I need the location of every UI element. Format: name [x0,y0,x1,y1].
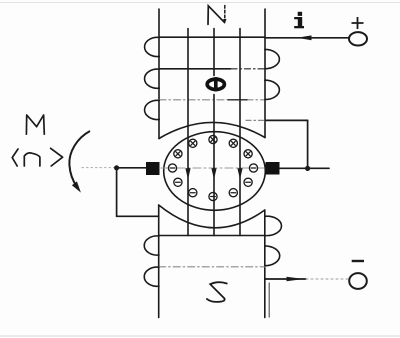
N coil left turn 1 [145,37,160,56]
conductor 60deg [229,139,237,147]
N coil right turn 1 [265,49,280,68]
S pole right edge [264,210,266,318]
conductor 270deg [209,192,217,200]
flux arrowhead right [237,168,242,179]
rotation arrowhead [72,181,81,192]
junction dot left [114,165,119,170]
N pole left edge [158,9,160,139]
flux line left [187,29,189,236]
flux label phi [207,79,224,89]
conductor 180deg [168,164,176,172]
S pole face arc [159,205,265,228]
flux line across centre conductors [213,135,215,201]
conductor 150deg [174,150,182,158]
conductor 90deg [209,135,217,143]
wire N pole to right vertical [266,119,308,121]
N pole face arc [159,122,265,138]
S coil left turn 1 [144,236,159,255]
wire left brush to junction [117,167,146,169]
brush right [266,162,280,175]
scan artifact bottom line [0,335,400,337]
S field winding line 1 [159,235,265,237]
flux arrowhead left [185,168,190,179]
brush axis centerline [161,167,264,169]
rotation arrow arc [69,131,90,187]
current arrow on plus wire [297,35,312,40]
cross symbols (current into page) [246,152,250,156]
dash symbols (current out of page) [251,167,256,169]
conductor 210deg [174,178,182,186]
scan artifact top line [0,2,400,4]
wire plus terminal [265,37,349,39]
N coil left turn 2 [145,69,160,88]
S coil left turn 2 [144,267,159,286]
plus terminal circle [349,32,367,45]
N coil right turn 2 [265,80,280,99]
label M [26,115,44,134]
minus sign [352,260,364,262]
N field winding line 3 (hidden) [159,99,265,101]
armature conductors: top half = current in (x), bottom = out (dash) [168,135,257,200]
S coil right turn 2 [265,246,280,266]
plus sign [352,17,364,29]
minus terminal circle [349,273,367,289]
N coil left turn 3 [145,100,160,119]
conductor 0deg [249,164,257,172]
N pole right edge [264,9,266,138]
wire right vertical down [307,120,309,168]
conductor 330deg [244,178,252,186]
N field winding line 2 [159,68,231,70]
wire minus terminal faint [306,278,349,280]
hidden winding lead inside N pole [246,119,265,121]
flux line center (gap at phi) [213,29,215,236]
wire minus terminal solid [265,278,306,280]
conductor 240deg [189,189,197,197]
S coil right turn 1 [265,216,282,235]
conductor 120deg [189,139,197,147]
S pole left edge [158,205,160,318]
conductor 30deg [244,150,252,158]
brush left [146,162,160,175]
flux arrowhead center [211,168,216,179]
label i [294,12,304,29]
label N [208,6,225,25]
wire right brush line [280,167,330,169]
conductor 300deg [229,189,237,197]
wire left bottom to S pole [117,215,159,217]
junction dot right [305,166,310,171]
N field winding line 1 [159,36,265,38]
S field winding line 2 (hidden) [159,266,265,268]
label S [207,282,227,302]
current arrow on minus wire [287,277,304,282]
armature rotor [164,132,266,211]
flux line right [239,29,241,236]
label (n) [12,148,62,166]
wire left junction down [116,168,118,217]
dotted line to rotation arrow [82,167,114,169]
